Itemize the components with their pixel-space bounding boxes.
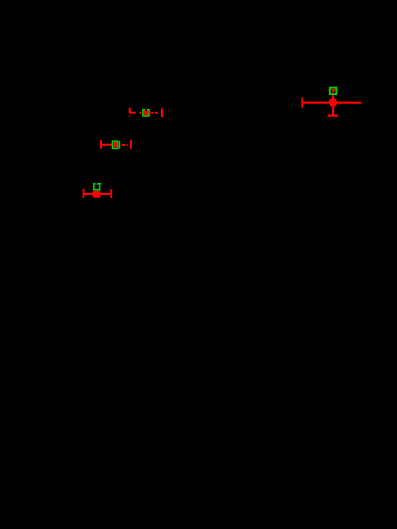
dash b	[152, 112, 154, 114]
faint dash	[120, 144, 122, 145]
green vertical line marker	[119, 141, 121, 149]
black notch	[96, 183, 97, 185]
red triangle marker inside square	[331, 89, 336, 93]
dash a	[139, 112, 141, 114]
green open square	[94, 184, 100, 190]
green open square	[143, 110, 149, 116]
black notch	[145, 108, 147, 111]
upper faint cap	[328, 89, 338, 90]
left cap dim part	[129, 115, 131, 117]
dash c	[155, 112, 158, 114]
horizontal error bar line	[302, 102, 361, 104]
group 3 : third measurement	[83, 183, 113, 199]
vertical error bar	[332, 95, 334, 115]
left cap	[83, 189, 85, 198]
green dot	[100, 183, 101, 184]
red triangle marker	[92, 191, 100, 198]
green open square	[112, 141, 117, 148]
error bar line	[84, 193, 111, 195]
left cap bright part	[129, 108, 131, 113]
bottom cap	[328, 114, 338, 116]
left cap	[100, 140, 102, 149]
right cap	[130, 140, 132, 149]
group 2 : second measurement	[100, 140, 132, 149]
left cap	[301, 98, 303, 108]
error bar solid segment	[130, 112, 136, 114]
right cap	[161, 108, 163, 117]
right cap	[110, 189, 112, 198]
red filled circle	[329, 98, 338, 107]
error bar solid left segment	[102, 144, 113, 146]
red square marker	[144, 110, 149, 115]
dash b	[127, 144, 128, 146]
dash a	[122, 144, 125, 146]
green open square	[330, 88, 337, 95]
dash over square right edge	[149, 112, 151, 114]
red square marker	[114, 142, 118, 147]
group 4 : right measurement with average point	[301, 88, 361, 117]
group 1 : top-left measurement	[129, 108, 163, 118]
